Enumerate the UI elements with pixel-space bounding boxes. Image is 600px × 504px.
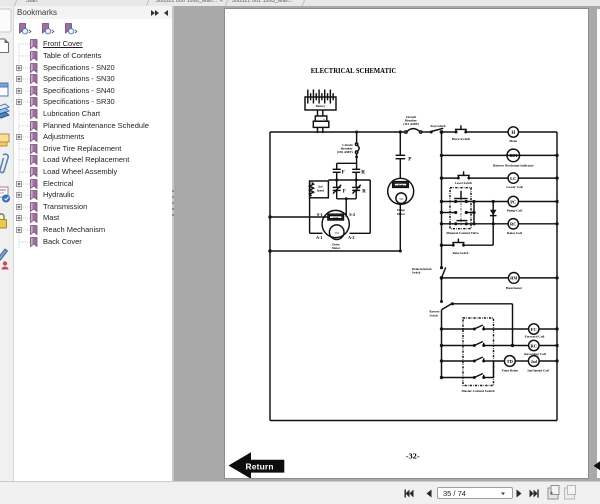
svg-text:LC: LC	[510, 176, 516, 181]
svg-text:Lower Switch: Lower Switch	[455, 181, 472, 185]
svg-text:Return: Return	[246, 461, 274, 471]
svg-text:RC: RC	[510, 222, 517, 227]
svg-text:2nd: 2nd	[318, 186, 323, 189]
svg-text:Raise Coil: Raise Coil	[507, 231, 522, 235]
svg-text:Forward Coil: Forward Coil	[525, 334, 545, 338]
svg-text:Battery: Battery	[316, 104, 326, 108]
svg-text:Switch: Switch	[430, 313, 439, 317]
svg-text:Time Delay: Time Delay	[501, 368, 518, 372]
svg-text:Field: Field	[398, 185, 404, 187]
svg-text:PC: PC	[510, 199, 516, 204]
svg-text:F: F	[342, 170, 345, 176]
svg-text:H: H	[511, 131, 515, 136]
svg-text:FC: FC	[531, 327, 537, 332]
svg-text:S-2: S-2	[349, 212, 355, 217]
svg-text:Master Control Switch: Master Control Switch	[461, 389, 494, 393]
svg-text:Field: Field	[333, 217, 339, 219]
svg-text:Switch: Switch	[412, 271, 421, 275]
svg-text:A-1: A-1	[316, 235, 323, 240]
svg-text:R: R	[361, 170, 365, 176]
svg-text:HM: HM	[510, 276, 517, 281]
svg-text:ELECTRICAL SCHEMATIC: ELECTRICAL SCHEMATIC	[311, 66, 397, 75]
svg-text:Battery Discharge Indicator: Battery Discharge Indicator	[493, 163, 534, 167]
svg-text:2nd: 2nd	[531, 360, 538, 364]
svg-text:F: F	[343, 190, 346, 195]
svg-text:2nd Speed Coil: 2nd Speed Coil	[527, 368, 549, 372]
svg-text:Manual Control Valve: Manual Control Valve	[446, 231, 479, 235]
svg-text:A-2: A-2	[348, 235, 355, 240]
svg-text:TD: TD	[507, 359, 514, 364]
svg-text:-32-: -32-	[406, 451, 421, 460]
svg-text:(115 AMP): (115 AMP)	[403, 122, 419, 126]
svg-text:(150 AMP): (150 AMP)	[337, 150, 353, 154]
svg-text:R: R	[362, 190, 366, 195]
svg-text:Motor: Motor	[332, 246, 341, 250]
svg-text:Lower Coil: Lower Coil	[506, 185, 522, 189]
svg-text:Speed: Speed	[317, 189, 325, 192]
svg-text:BDI: BDI	[509, 153, 517, 158]
svg-text:Motor: Motor	[397, 212, 406, 216]
svg-text:Keyswitch: Keyswitch	[430, 124, 445, 128]
svg-text:Arm: Arm	[334, 231, 339, 234]
svg-text:Horn: Horn	[509, 139, 517, 143]
svg-text:Hourmeter: Hourmeter	[506, 286, 523, 290]
svg-text:Pump Coil: Pump Coil	[507, 209, 523, 213]
svg-text:S-1: S-1	[317, 212, 323, 217]
svg-text:Horn Switch: Horn Switch	[452, 137, 470, 141]
svg-text:Arm: Arm	[399, 197, 404, 200]
svg-text:35 / 74: 35 / 74	[443, 489, 466, 498]
svg-text:Raise Switch: Raise Switch	[453, 251, 469, 255]
svg-text:P: P	[408, 156, 412, 162]
svg-text:RC: RC	[531, 343, 538, 348]
